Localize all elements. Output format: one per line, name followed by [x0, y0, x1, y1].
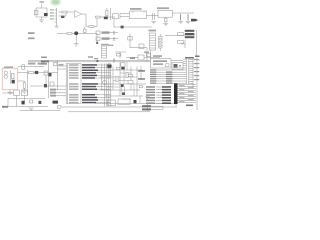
bus pin ticks	[189, 60, 193, 84]
pin name labels right of bar	[179, 85, 194, 102]
pin labels J1	[50, 9, 54, 19]
wire vertical x130	[129, 34, 131, 45]
MCU bus verticals	[186, 58, 193, 89]
opto U5	[172, 63, 183, 70]
wire J1 to amp	[59, 11, 75, 13]
box D6	[138, 55, 144, 60]
capacitor C22	[113, 59, 114, 63]
wire far right vertical	[196, 30, 198, 57]
long wire top of lower section	[28, 59, 151, 61]
small part	[30, 100, 33, 103]
resistor R2	[62, 11, 67, 13]
wire U-right	[171, 60, 183, 62]
parts right	[178, 33, 184, 36]
wire rail junction down	[96, 34, 98, 45]
label VIN	[40, 1, 45, 3]
extra mesh wires	[107, 62, 141, 99]
cap blob C17	[39, 101, 42, 104]
vertical feed left of table	[57, 60, 59, 90]
wire out of box bottom	[18, 80, 24, 82]
resistor R10	[67, 33, 72, 35]
core line	[9, 71, 11, 85]
wire right y35.5	[165, 35, 195, 37]
resistor R3	[29, 72, 34, 74]
power module U1	[130, 11, 147, 19]
connector J6	[159, 34, 161, 51]
dark blob C15	[49, 73, 52, 76]
far right vertical	[196, 58, 198, 111]
transistor Q3	[102, 80, 106, 84]
cap C12	[180, 14, 182, 21]
capacitor C10	[153, 13, 155, 20]
wire loop battery circuit	[36, 8, 47, 17]
wire cap to ground	[75, 35, 77, 44]
cap C5 polarized dark	[74, 31, 78, 35]
big pin table U4	[66, 64, 67, 104]
right label stack col1	[146, 86, 155, 104]
resistor R21	[128, 75, 132, 77]
cap C20	[117, 67, 120, 69]
stub rows into table	[58, 66, 67, 69]
varistor RV1 dark	[35, 71, 38, 74]
diode D2 dark	[104, 17, 108, 20]
node VIN stub top-left	[41, 4, 43, 9]
feedback wire	[86, 14, 97, 27]
red box mains input PS1	[2, 68, 18, 90]
bus verticals right of table	[102, 64, 111, 107]
wire op-amp output	[82, 13, 87, 15]
box D4	[139, 44, 144, 49]
resistor R1 vertical	[23, 83, 25, 89]
table net label cells	[82, 64, 98, 103]
dark cap blob	[22, 101, 25, 105]
left pin rows to MCU bus	[150, 69, 156, 84]
connector J1 pin strip	[56, 8, 58, 26]
connector J5 striped	[149, 30, 157, 50]
net label +5V arrow (dark)	[191, 19, 196, 22]
wire to detector	[100, 16, 115, 18]
wire out of box top	[18, 72, 28, 74]
resistor R8 vertical	[106, 11, 108, 16]
wire to ground	[41, 17, 43, 20]
wires between stacks	[156, 87, 162, 103]
wire module pins	[120, 14, 129, 19]
resistor R7	[96, 16, 101, 18]
wire vertical node	[110, 8, 112, 20]
diode dark in box	[12, 80, 15, 84]
net label +3V3 left	[28, 37, 35, 39]
net label row B	[96, 37, 100, 40]
ground C12	[178, 21, 183, 23]
connector J3 ladder	[101, 44, 114, 58]
label above red box	[4, 66, 13, 68]
transformer circles	[4, 71, 7, 74]
wire inv input	[59, 13, 67, 16]
right label stack col2	[162, 86, 171, 104]
crystal Y1	[128, 80, 133, 83]
transistor Q1	[107, 64, 112, 69]
green highlight marker	[51, 0, 61, 5]
dense top-right text	[185, 56, 200, 59]
label regulator	[157, 7, 169, 9]
wire AC path	[28, 72, 58, 74]
GND label dark	[53, 101, 59, 104]
lower mid caps	[122, 87, 125, 93]
ground blob	[121, 26, 124, 29]
cap C21	[139, 86, 142, 88]
wire module bottom	[114, 19, 152, 27]
cap C11	[165, 18, 167, 22]
ground bottom-left	[29, 108, 34, 110]
ground	[39, 20, 44, 22]
dark IC bar	[174, 84, 178, 105]
resistor R13	[126, 72, 128, 77]
long wires bottom	[95, 103, 174, 105]
wire J5 down	[150, 50, 152, 60]
net labels AC	[28, 63, 36, 65]
battery BT1	[34, 10, 38, 15]
ground J1	[54, 26, 59, 27]
wire box bottom ground	[9, 90, 11, 92]
capacitor C2 (dark blob)	[61, 16, 64, 18]
box D7	[44, 71, 48, 75]
box mid bottom	[118, 99, 130, 104]
box D5	[121, 63, 125, 67]
net label +5V left	[28, 32, 35, 34]
ground box	[8, 92, 13, 94]
bottom left tiny labels	[2, 106, 8, 108]
label mid	[130, 58, 135, 60]
wire main 5V rail	[57, 33, 97, 35]
wire reg adj	[165, 17, 167, 23]
net label row A	[96, 31, 100, 34]
wires bottom-left	[2, 93, 48, 107]
dark blob D8	[44, 84, 47, 87]
lower wide box U6	[151, 59, 172, 69]
net cells right	[138, 70, 145, 72]
bottom-left oscillator cluster	[14, 90, 20, 96]
wire reg output	[173, 12, 195, 14]
resistor R12	[116, 76, 118, 81]
ground R1	[22, 91, 27, 93]
diode D9 (dark)	[44, 13, 48, 16]
ground C5	[74, 44, 79, 46]
resistor R6	[89, 26, 94, 28]
regulator U3	[158, 10, 173, 17]
parts mid	[115, 52, 126, 58]
wire cluster vertical	[45, 75, 47, 84]
op-amp U2	[75, 11, 82, 18]
ground reg	[163, 24, 168, 26]
vertical line x27.5	[27, 70, 29, 95]
labels mid-left	[41, 61, 49, 63]
wire bottom rail	[20, 110, 60, 112]
box R15	[50, 82, 54, 86]
cap C6 vertical	[84, 29, 86, 32]
small box C8	[113, 14, 119, 19]
wire lower AC	[30, 85, 66, 87]
ground C10	[151, 22, 156, 24]
wire module output	[147, 15, 159, 17]
winding box	[11, 74, 14, 79]
right edge labels	[194, 59, 200, 80]
wire x130 down	[130, 44, 147, 62]
junction cluster	[96, 60, 98, 62]
vertical line x48.5	[48, 62, 50, 98]
bottom XT labels	[142, 105, 151, 110]
dark text block ESP labels	[185, 30, 195, 38]
label HLK module	[130, 8, 142, 10]
ground C13	[186, 21, 191, 23]
labels left bottom of table	[50, 89, 56, 97]
table row wires	[95, 65, 111, 103]
small labels left of table	[59, 64, 64, 66]
cap C13	[187, 14, 189, 21]
dark blob	[134, 100, 137, 103]
long wire 2	[28, 61, 151, 63]
table pin names	[69, 64, 79, 103]
pin wires right of bar	[178, 85, 197, 103]
dark blob Q2	[121, 67, 124, 69]
ground mid	[145, 97, 150, 99]
MCU discrete mesh	[113, 62, 137, 96]
